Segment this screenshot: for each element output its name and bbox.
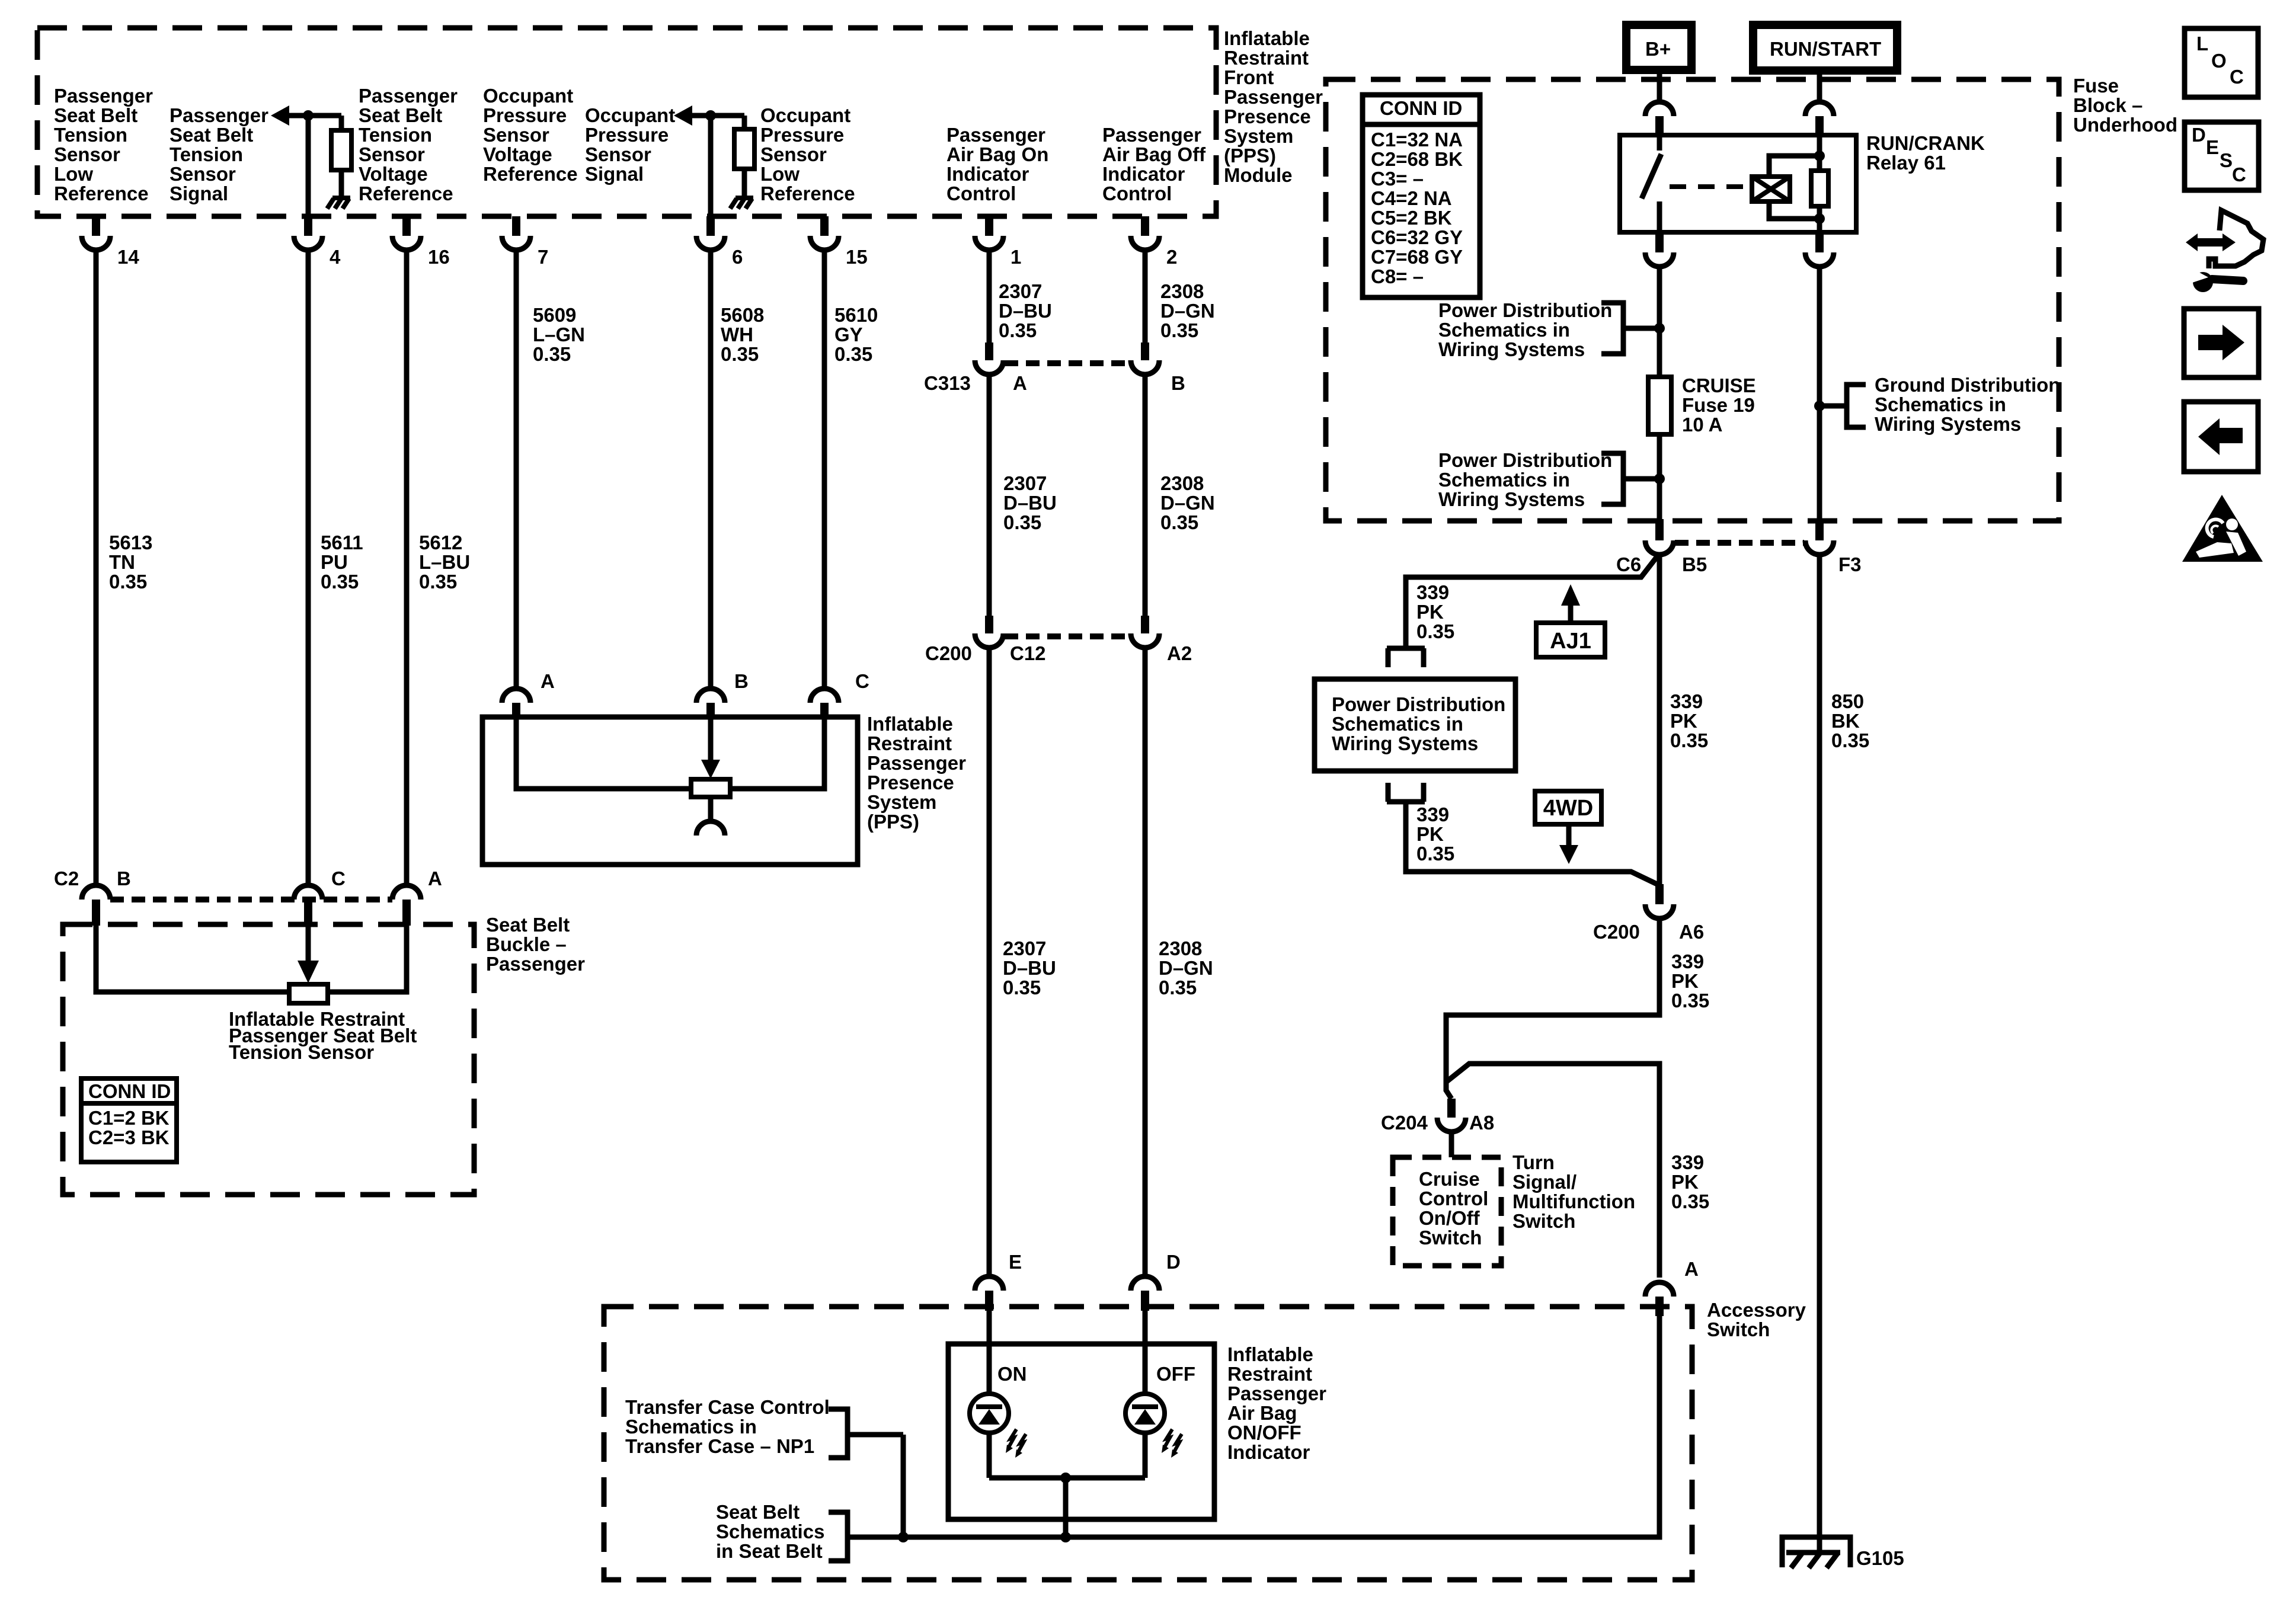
svg-text:2307: 2307 xyxy=(999,280,1042,302)
wire xyxy=(742,116,747,129)
wiper pigtail arc xyxy=(696,821,725,836)
label: Seat Belt Schematics xyxy=(716,1501,824,1562)
off-page bracket (transfer case) xyxy=(829,1409,903,1458)
svg-text:CRUISE: CRUISE xyxy=(1682,375,1756,396)
node xyxy=(1060,1473,1071,1483)
svg-text:L–BU: L–BU xyxy=(419,551,470,573)
svg-text:Tension Sensor: Tension Sensor xyxy=(229,1041,374,1063)
svg-text:RUN/CRANK: RUN/CRANK xyxy=(1866,132,1985,154)
connector pin 16 (PPS module) xyxy=(392,216,450,268)
svg-text:Sensor: Sensor xyxy=(359,143,425,165)
label: wire 2307 D-BU 0.35 (upper) xyxy=(999,280,1052,341)
svg-text:PK: PK xyxy=(1670,710,1697,732)
svg-text:0.35: 0.35 xyxy=(533,343,571,365)
connector C200 pin A6 xyxy=(1645,884,1674,918)
svg-text:5609: 5609 xyxy=(533,304,576,326)
svg-text:Tension: Tension xyxy=(54,124,127,146)
svg-text:Pressure: Pressure xyxy=(483,104,567,126)
label: pin1 Passenger Air Bag On Indicator Control xyxy=(946,124,1048,204)
label: Turn Signal / Multifunction Switch xyxy=(1512,1151,1635,1232)
RUN/START power terminal box xyxy=(1753,25,1897,71)
svg-text:Passenger: Passenger xyxy=(170,104,268,126)
svg-text:BK: BK xyxy=(1831,710,1860,732)
wire xyxy=(1817,135,1822,171)
wire 5610 xyxy=(822,250,827,690)
wire (pin A internal) xyxy=(516,717,691,789)
svg-text:2308: 2308 xyxy=(1160,280,1204,302)
wire xyxy=(708,797,714,822)
svg-text:2: 2 xyxy=(1166,246,1177,268)
svg-text:Schematics in: Schematics in xyxy=(1332,713,1463,735)
connector C313 pin B xyxy=(1131,343,1159,375)
svg-text:C313: C313 xyxy=(924,372,971,394)
svg-text:GY: GY xyxy=(834,324,863,345)
svg-text:0.35: 0.35 xyxy=(1416,620,1454,642)
wire 2308 (C200 to indicator D) xyxy=(1143,646,1148,1276)
svg-text:Cruise: Cruise xyxy=(1419,1168,1480,1190)
svg-text:Inflatable: Inflatable xyxy=(1224,27,1310,49)
svg-text:Passenger: Passenger xyxy=(1102,124,1201,146)
svg-text:Module: Module xyxy=(1224,164,1292,186)
svg-text:B: B xyxy=(734,670,749,692)
svg-text:2307: 2307 xyxy=(1003,937,1046,959)
svg-text:ON/OFF: ON/OFF xyxy=(1227,1422,1302,1443)
node xyxy=(1654,473,1665,484)
wire 339 PK (B5 to C200 A6) xyxy=(1657,553,1662,885)
svg-text:Fuse 19: Fuse 19 xyxy=(1682,394,1755,416)
LED ON xyxy=(970,1394,1026,1458)
connector pin 4 (PPS module) xyxy=(294,216,341,268)
svg-text:Presence: Presence xyxy=(867,772,954,793)
potentiometer resistor (PPS) xyxy=(691,779,730,797)
label: wire 2308 D-GN 0.35 (middle) xyxy=(1160,472,1215,533)
off-page bracket (above power dist box) xyxy=(1387,648,1425,667)
wire 5611 xyxy=(306,250,311,885)
svg-text:Seat Belt: Seat Belt xyxy=(359,104,442,126)
label: wire 2308 D-GN 0.35 (lower) xyxy=(1159,937,1213,998)
svg-text:L–GN: L–GN xyxy=(533,324,585,345)
label: indicator xyxy=(1227,1343,1326,1463)
C2 in-line dashes xyxy=(110,897,392,902)
node xyxy=(1814,213,1825,224)
wire xyxy=(1063,1478,1069,1537)
svg-text:0.35: 0.35 xyxy=(1671,990,1709,1012)
svg-text:Seat Belt: Seat Belt xyxy=(54,104,137,126)
PPS module dashed box xyxy=(37,28,1216,216)
label: Seat Belt Buckle - Passenger xyxy=(486,914,585,975)
label: Power Distribution upper xyxy=(1438,299,1612,360)
wire xyxy=(987,1433,992,1478)
resistor (pin4 pull-up) xyxy=(331,130,351,170)
svg-text:Pressure: Pressure xyxy=(760,124,844,146)
svg-text:A6: A6 xyxy=(1679,921,1704,943)
wire 5612 xyxy=(404,250,410,885)
svg-text:Relay 61: Relay 61 xyxy=(1866,152,1946,174)
RUN/CRANK relay box xyxy=(1620,135,1856,232)
node xyxy=(1814,401,1825,411)
connector C200 pin A2 xyxy=(1131,616,1159,648)
wire 339 PK (C6 branch) xyxy=(1406,553,1659,648)
svg-text:Restraint: Restraint xyxy=(867,732,952,754)
svg-text:Schematics in: Schematics in xyxy=(625,1416,757,1438)
PPS sensor box xyxy=(482,717,858,865)
svg-text:339: 339 xyxy=(1670,690,1703,712)
label: wire 339 PK 0.35 (to accessory) xyxy=(1671,1151,1709,1212)
svg-text:0.35: 0.35 xyxy=(1160,319,1198,341)
svg-text:C5=2 BK: C5=2 BK xyxy=(1371,207,1452,229)
wire (A6 down and split) xyxy=(1446,918,1659,1099)
label: pin15 Occupant Pressure Sensor Low Reference xyxy=(760,104,855,204)
label: Power Distribution lower xyxy=(1438,449,1612,510)
svg-text:Reference: Reference xyxy=(359,183,453,204)
off-page bracket (seat belt) xyxy=(829,1512,848,1561)
label: pin14 Passenger Seat Belt Tension Sensor Low Reference xyxy=(54,85,153,204)
svg-text:B: B xyxy=(117,868,131,889)
svg-text:D–GN: D–GN xyxy=(1159,957,1213,979)
svg-text:5612: 5612 xyxy=(419,532,462,553)
svg-text:0.35: 0.35 xyxy=(1670,729,1708,751)
svg-text:A2: A2 xyxy=(1167,642,1192,664)
B5-F3 in-line dashes xyxy=(1675,540,1804,546)
svg-text:TN: TN xyxy=(109,551,135,573)
svg-text:ON: ON xyxy=(997,1363,1027,1385)
CONN ID table (buckle) xyxy=(81,1078,177,1162)
svg-text:PK: PK xyxy=(1671,1171,1699,1193)
svg-text:Control: Control xyxy=(1419,1188,1488,1209)
svg-text:Reference: Reference xyxy=(483,163,578,185)
relay pin bottom left xyxy=(1645,232,1674,267)
svg-text:339: 339 xyxy=(1671,950,1704,972)
svg-text:6: 6 xyxy=(732,246,743,268)
wire (pin B wiper) xyxy=(708,717,714,762)
svg-text:Switch: Switch xyxy=(1707,1318,1770,1340)
connector pin 1 (PPS module) xyxy=(975,216,1021,268)
wire xyxy=(708,120,714,216)
connector pin A (accessory switch) xyxy=(1645,1258,1699,1316)
label: wire 339 PK 0.35 (A6 below) xyxy=(1671,950,1709,1012)
relay coil xyxy=(1752,177,1790,201)
label: PPS sensor xyxy=(867,713,966,833)
svg-text:Sensor: Sensor xyxy=(483,124,549,146)
svg-text:PU: PU xyxy=(321,551,348,573)
label: wire 2308 D-GN 0.35 (upper) xyxy=(1160,280,1215,341)
svg-text:Tension: Tension xyxy=(359,124,432,146)
Power Distribution solid box xyxy=(1315,679,1515,771)
svg-text:Passenger: Passenger xyxy=(867,752,966,774)
svg-text:Inflatable: Inflatable xyxy=(1227,1343,1313,1365)
svg-text:System: System xyxy=(867,791,936,813)
svg-text:RUN/START: RUN/START xyxy=(1770,38,1881,60)
svg-text:14: 14 xyxy=(117,246,139,268)
svg-text:A: A xyxy=(541,670,555,692)
svg-text:Reference: Reference xyxy=(54,183,149,204)
svg-text:0.35: 0.35 xyxy=(109,571,147,593)
svg-text:CONN ID: CONN ID xyxy=(1380,97,1462,119)
wire (buckle pin B) xyxy=(96,926,289,992)
wire 2308 (C313 to C200) xyxy=(1143,373,1148,616)
svg-text:C4=2 NA: C4=2 NA xyxy=(1371,187,1452,209)
wire 2308 (pin2 to C313) xyxy=(1143,250,1148,343)
Air Bag ON/OFF indicator box xyxy=(948,1344,1214,1519)
icon: left arrow box xyxy=(2184,402,2258,472)
svg-text:C200: C200 xyxy=(925,642,972,664)
svg-text:Voltage: Voltage xyxy=(483,143,552,165)
svg-text:AJ1: AJ1 xyxy=(1550,629,1591,654)
svg-text:G105: G105 xyxy=(1856,1547,1904,1569)
svg-text:B: B xyxy=(1171,372,1185,394)
wiper arrow (buckle) xyxy=(298,961,319,983)
svg-text:10 A: 10 A xyxy=(1682,414,1722,436)
svg-text:D–GN: D–GN xyxy=(1160,492,1215,514)
label: PPS module name xyxy=(1224,27,1323,186)
svg-text:Wiring Systems: Wiring Systems xyxy=(1438,338,1585,360)
signal arrow (pin 6 internal) xyxy=(674,105,692,126)
wire 5609 xyxy=(514,250,519,690)
svg-text:Wiring Systems: Wiring Systems xyxy=(1875,413,2021,435)
svg-text:Sensor: Sensor xyxy=(585,143,651,165)
svg-text:F3: F3 xyxy=(1838,553,1862,575)
svg-text:5610: 5610 xyxy=(834,304,878,326)
svg-text:D: D xyxy=(2192,124,2206,146)
svg-text:Multifunction: Multifunction xyxy=(1512,1190,1635,1212)
svg-text:Indicator: Indicator xyxy=(1102,163,1185,185)
svg-text:A: A xyxy=(1684,1258,1699,1280)
svg-text:C8= –: C8= – xyxy=(1371,265,1424,287)
svg-text:5611: 5611 xyxy=(321,532,363,553)
svg-text:L: L xyxy=(2196,33,2208,55)
svg-text:C2: C2 xyxy=(54,868,79,889)
connector C200 pin C12 xyxy=(975,616,1003,648)
connector pin C (PPS sensor) xyxy=(810,670,869,717)
tension sensor resistor xyxy=(289,984,328,1003)
svg-text:C2=3 BK: C2=3 BK xyxy=(88,1126,170,1148)
wire xyxy=(901,1435,906,1537)
svg-text:C1=32 NA: C1=32 NA xyxy=(1371,129,1463,151)
wiper arrow xyxy=(701,760,720,779)
connector F3 xyxy=(1805,519,1834,555)
svg-text:Indicator: Indicator xyxy=(1227,1441,1310,1463)
connector C2 pin B xyxy=(82,885,110,926)
connector B5 xyxy=(1645,519,1674,555)
connector pin A (PPS sensor) xyxy=(502,670,555,717)
svg-text:0.35: 0.35 xyxy=(1416,843,1454,865)
AJ1 reference box with up arrow xyxy=(1536,584,1605,657)
svg-text:E: E xyxy=(2206,136,2219,158)
svg-text:Transfer Case Control: Transfer Case Control xyxy=(625,1396,830,1418)
label: wire 2307 D-BU 0.35 (middle) xyxy=(1003,472,1057,533)
svg-text:PK: PK xyxy=(1416,601,1444,623)
relay switch xyxy=(1642,135,1661,232)
svg-text:B+: B+ xyxy=(1645,38,1671,60)
svg-text:Underhood: Underhood xyxy=(2073,114,2177,136)
wire (relay to F3) xyxy=(1817,265,1822,520)
wire (buckle pin A) xyxy=(328,926,407,992)
label: pin6 Occupant Pressure Sensor Signal xyxy=(585,104,675,185)
wire xyxy=(742,169,747,198)
svg-text:Low: Low xyxy=(760,163,800,185)
wire (pin C internal) xyxy=(730,717,824,789)
svg-text:(PPS): (PPS) xyxy=(1224,145,1276,167)
svg-text:7: 7 xyxy=(538,246,548,268)
node junction pin6 xyxy=(705,110,716,121)
label: tension sensor xyxy=(229,1008,417,1063)
relay pin top right xyxy=(1805,102,1834,135)
relay actuation dashes xyxy=(1670,184,1748,189)
connector pin 14 (PPS module) xyxy=(82,216,139,268)
svg-text:Power Distribution: Power Distribution xyxy=(1438,449,1612,471)
relay suppression resistor xyxy=(1811,171,1828,206)
svg-text:D–BU: D–BU xyxy=(999,300,1052,322)
svg-text:Inflatable: Inflatable xyxy=(867,713,953,735)
svg-text:Passenger: Passenger xyxy=(359,85,458,107)
connector pin E xyxy=(975,1251,1022,1311)
svg-text:Low: Low xyxy=(54,163,93,185)
svg-text:A: A xyxy=(1013,372,1027,394)
svg-text:On/Off: On/Off xyxy=(1419,1207,1480,1229)
svg-text:Air Bag Off: Air Bag Off xyxy=(1102,143,1206,165)
4WD reference box with down arrow xyxy=(1535,791,1601,864)
label: Transfer Case Control Schematics xyxy=(625,1396,830,1457)
label: wire 5611 PU 0.35 xyxy=(321,532,363,593)
label: Accessory Switch xyxy=(1707,1299,1806,1340)
label: wire 850 BK 0.35 xyxy=(1831,690,1869,751)
Seat Belt Buckle dashed box xyxy=(63,924,474,1195)
svg-text:Schematics: Schematics xyxy=(716,1521,824,1542)
off-page bracket (below power dist box) xyxy=(1387,783,1425,802)
svg-text:D: D xyxy=(1166,1251,1181,1273)
svg-text:E: E xyxy=(1009,1251,1022,1273)
svg-text:S: S xyxy=(2220,149,2233,171)
svg-text:Signal/: Signal/ xyxy=(1512,1171,1576,1193)
connector pin 6 (PPS module) xyxy=(696,216,743,268)
svg-text:Accessory: Accessory xyxy=(1707,1299,1806,1321)
svg-text:A8: A8 xyxy=(1469,1112,1494,1134)
svg-text:4WD: 4WD xyxy=(1543,796,1593,821)
svg-text:Control: Control xyxy=(1102,183,1172,204)
svg-text:C12: C12 xyxy=(1010,642,1046,664)
wire coil bottom link xyxy=(1769,201,1819,219)
svg-text:Schematics in: Schematics in xyxy=(1438,469,1570,491)
svg-text:C3= –: C3= – xyxy=(1371,168,1424,190)
wire xyxy=(1143,1311,1148,1394)
label: pin4 Passenger Seat Belt Tension Sensor Signal xyxy=(170,104,268,204)
svg-text:Control: Control xyxy=(946,183,1016,204)
svg-text:O: O xyxy=(2211,50,2227,72)
wire xyxy=(1817,206,1822,232)
svg-text:C2=68 BK: C2=68 BK xyxy=(1371,148,1463,170)
connector pin B (PPS sensor) xyxy=(696,670,749,717)
wire 5613 xyxy=(94,250,99,885)
svg-text:850: 850 xyxy=(1831,690,1864,712)
svg-text:CONN ID: CONN ID xyxy=(88,1080,171,1102)
svg-text:0.35: 0.35 xyxy=(1160,511,1198,533)
svg-text:C: C xyxy=(855,670,869,692)
label: wire 5609 L-GN 0.35 xyxy=(533,304,585,365)
svg-text:C: C xyxy=(331,868,346,889)
label: CRUISE Fuse 19 10A xyxy=(1682,375,1756,436)
svg-text:Passenger: Passenger xyxy=(54,85,153,107)
wire coil top link xyxy=(1769,156,1819,177)
ground G105 xyxy=(1782,1537,1850,1568)
wire xyxy=(987,1311,992,1394)
Fuse Block - Underhood dashed box xyxy=(1326,79,2059,521)
svg-text:4: 4 xyxy=(330,246,341,268)
svg-text:0.35: 0.35 xyxy=(1003,977,1041,998)
label: wire 5613 TN 0.35 xyxy=(109,532,152,593)
svg-text:339: 339 xyxy=(1416,581,1449,603)
svg-text:C7=68 GY: C7=68 GY xyxy=(1371,246,1463,268)
svg-text:5613: 5613 xyxy=(109,532,152,553)
C313 in-line dashes xyxy=(1005,360,1131,366)
Cruise Control On/Off Switch dashed box xyxy=(1393,1157,1501,1266)
wire xyxy=(1449,1131,1454,1157)
svg-text:Reference: Reference xyxy=(760,183,855,204)
wire xyxy=(989,1475,1145,1481)
signal arrow (pin 4 internal) xyxy=(271,105,289,126)
svg-text:Signal: Signal xyxy=(585,163,644,185)
svg-text:C6=32 GY: C6=32 GY xyxy=(1371,226,1463,248)
svg-text:Presence: Presence xyxy=(1224,105,1311,127)
label: pin2 Passenger Air Bag Off Indicator Control xyxy=(1102,124,1206,204)
svg-text:Sensor: Sensor xyxy=(170,163,236,185)
label: Ground Distribution xyxy=(1875,374,2060,435)
label: pin7 Occupant Pressure Sensor Voltage Reference xyxy=(483,85,578,185)
svg-text:PK: PK xyxy=(1416,823,1444,845)
svg-text:A: A xyxy=(428,868,442,889)
wire xyxy=(339,170,344,198)
svg-text:0.35: 0.35 xyxy=(1831,729,1869,751)
wire RUN/START xyxy=(1817,75,1822,102)
svg-text:Power Distribution: Power Distribution xyxy=(1438,299,1612,321)
svg-text:Block –: Block – xyxy=(2073,94,2142,116)
label: wire 5612 L-BU 0.35 xyxy=(419,532,470,593)
off-page bracket (power distribution upper) xyxy=(1601,303,1659,354)
wire (split to accessory A) xyxy=(1446,1064,1659,1278)
svg-text:Switch: Switch xyxy=(1512,1210,1575,1232)
svg-text:D–BU: D–BU xyxy=(1003,492,1057,514)
svg-text:0.35: 0.35 xyxy=(834,343,872,365)
svg-text:OFF: OFF xyxy=(1156,1363,1195,1385)
svg-text:Voltage: Voltage xyxy=(359,163,428,185)
connector pin 15 (PPS module) xyxy=(810,216,868,268)
wire xyxy=(339,116,344,130)
svg-text:Tension: Tension xyxy=(170,143,243,165)
B+ power terminal box xyxy=(1626,25,1691,70)
CRUISE fuse 19 xyxy=(1648,377,1671,434)
svg-text:Schematics in: Schematics in xyxy=(1438,319,1570,341)
icon: LOC box xyxy=(2185,28,2258,97)
wire xyxy=(306,120,311,216)
wire (fuse to B5) xyxy=(1657,434,1662,520)
svg-text:(PPS): (PPS) xyxy=(867,811,919,833)
svg-text:Occupant: Occupant xyxy=(760,104,850,126)
icon: right arrow box xyxy=(2184,309,2259,377)
svg-text:5608: 5608 xyxy=(721,304,764,326)
svg-text:System: System xyxy=(1224,125,1293,147)
svg-text:0.35: 0.35 xyxy=(721,343,759,365)
svg-text:Wiring Systems: Wiring Systems xyxy=(1438,488,1585,510)
svg-text:Buckle –: Buckle – xyxy=(486,933,567,955)
label: Fuse Block - Underhood xyxy=(2073,75,2177,136)
connector C2 pin A xyxy=(392,885,421,926)
connector C204 pin A8 xyxy=(1437,1099,1466,1132)
wire 850 BK (F3 to G105) xyxy=(1817,555,1822,1553)
svg-text:15: 15 xyxy=(846,246,868,268)
wire xyxy=(1143,1433,1148,1478)
svg-text:0.35: 0.35 xyxy=(1671,1190,1709,1212)
svg-text:C1=2 BK: C1=2 BK xyxy=(88,1107,170,1129)
resistor (pin6 pull-up) xyxy=(734,129,754,169)
